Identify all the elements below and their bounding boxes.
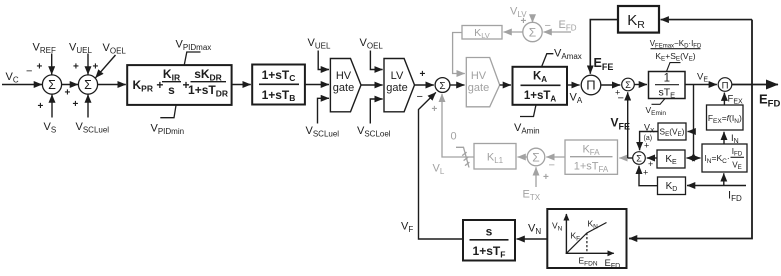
wire integrator to multiplier P2, node V_E xyxy=(685,84,717,86)
wire V_F feedback up into S3 xyxy=(419,92,464,239)
limiter slash (0 / V_L) xyxy=(456,147,469,167)
wire V_E into I_N block xyxy=(694,157,701,159)
svg-text:+: + xyxy=(37,62,43,73)
gate LV gate xyxy=(384,59,415,112)
block s/(1+sT_F) xyxy=(463,220,515,261)
wire K_R output down into P1 xyxy=(590,20,618,74)
wire grey summer to K_LV xyxy=(504,31,523,33)
wire K_D output to summer S7 xyxy=(639,166,658,186)
wire P1 to summer S6 xyxy=(601,84,621,86)
wire V_SCLuel into HV gate xyxy=(318,98,330,123)
svg-text:+: + xyxy=(65,88,71,99)
wire I_N into F_EX block xyxy=(723,132,725,144)
svg-text:Σ: Σ xyxy=(439,81,445,92)
block saturation characteristic V_N(E_FD) xyxy=(547,209,626,268)
wire K_L1 to limiter and up to summer S3 xyxy=(442,94,474,157)
gate HV gate xyxy=(330,59,361,112)
block PID K_PR+K_IR/s+sK_DR/(1+sT_DR) xyxy=(127,65,231,105)
sat block dashed knee xyxy=(586,233,588,253)
wire V_OEL slant into S2 xyxy=(96,55,116,78)
wire V_C into summer S1 xyxy=(2,84,42,86)
node V_Amin limit xyxy=(520,105,536,117)
wire E_FD feedback vertical xyxy=(629,20,752,239)
block 1/sT_E xyxy=(649,72,686,99)
block F_EX=f(I_N) xyxy=(707,105,744,130)
svg-text:−: − xyxy=(26,66,32,78)
svg-text:gate: gate xyxy=(333,82,354,94)
wire V_OEL into LV gate xyxy=(370,51,382,70)
svg-text:−: − xyxy=(618,93,624,105)
wire E_FD output xyxy=(732,84,778,86)
wire F_EX into P2 xyxy=(723,93,725,105)
svg-text:Σ: Σ xyxy=(84,78,92,92)
wire V_E into S_E block xyxy=(688,131,694,133)
svg-text:+: + xyxy=(420,69,426,80)
wire grey summer S5 to K_L1 xyxy=(518,156,528,158)
wire V_REF into S1 xyxy=(51,54,53,75)
wire V_UEL into HV gate xyxy=(318,51,329,70)
wire S_E output (node V_X) to summer S7 xyxy=(640,132,658,151)
GREY SECTION xyxy=(432,6,629,203)
sat block y-axis xyxy=(565,214,567,254)
wire S1 to S2 xyxy=(62,84,78,86)
block K_L1 xyxy=(474,144,516,170)
multiplier P2 xyxy=(718,78,732,92)
svg-text:s: s xyxy=(168,83,175,97)
svg-text:−: − xyxy=(417,91,423,103)
node V_Emin limit xyxy=(652,99,666,105)
wire lead-lag to HV gate xyxy=(305,84,329,86)
svg-text:+: + xyxy=(38,101,44,112)
gate grey HV gate xyxy=(466,58,499,107)
node V_PIDmin limit xyxy=(160,105,176,117)
node V_FE / wire V_FE up into S6 xyxy=(627,92,629,158)
svg-text:Σ: Σ xyxy=(529,26,536,40)
svg-text:Σ: Σ xyxy=(636,154,642,164)
block K_D xyxy=(658,177,686,195)
svg-text:SE(VE): SE(VE) xyxy=(660,127,685,139)
wire LV gate to summer S3 xyxy=(415,84,434,86)
summing junction S7 xyxy=(633,152,646,165)
block I_N=K_C*I_FD/V_E xyxy=(702,144,747,172)
svg-text:HV: HV xyxy=(336,70,352,82)
wire feedback into K_R xyxy=(661,19,752,21)
svg-text:1: 1 xyxy=(664,73,670,85)
block S_E(V_E) xyxy=(658,123,686,140)
sat block x-axis xyxy=(566,252,614,254)
svg-text:Π: Π xyxy=(722,80,729,91)
svg-text:gate: gate xyxy=(468,82,489,94)
wire E_TX into grey summer S5 xyxy=(535,167,537,187)
sat block curve xyxy=(566,223,606,254)
svg-text:+: + xyxy=(93,62,99,73)
wire S3 to grey HV gate xyxy=(450,84,465,86)
block (1+sT_C)/(1+sT_B) xyxy=(252,65,305,105)
wire V_LV into grey summer xyxy=(532,16,534,23)
svg-text:+: + xyxy=(543,172,549,183)
svg-text:Σ: Σ xyxy=(625,80,631,90)
wire V_FE junction into grey K_FA block xyxy=(619,157,628,159)
block K_E xyxy=(657,150,685,168)
wire S2 to PID block xyxy=(98,84,126,86)
svg-text:s: s xyxy=(486,225,493,239)
block K_LV xyxy=(462,26,502,40)
summing junction S2 xyxy=(78,75,97,94)
svg-text:Π: Π xyxy=(586,78,595,93)
svg-text:+: + xyxy=(644,141,649,151)
summing junction grey S5 xyxy=(527,148,545,166)
svg-text:+: + xyxy=(432,104,438,115)
svg-text:Σ: Σ xyxy=(532,151,539,165)
wire K_FA to grey summer S5 xyxy=(546,156,565,158)
svg-text:0: 0 xyxy=(451,131,457,143)
wire V_E drop line xyxy=(693,85,695,159)
wire V_UEL into S2 xyxy=(87,54,89,75)
svg-text:+: + xyxy=(648,159,653,169)
svg-text:+: + xyxy=(73,99,79,110)
wire K_E output to summer S7 xyxy=(647,157,657,159)
block K_R xyxy=(618,6,659,33)
svg-text:Σ: Σ xyxy=(48,78,56,92)
wire PID to lead-lag block xyxy=(232,84,251,86)
block K_A/(1+sT_A) xyxy=(513,67,568,105)
wire grey HV gate to K_A block xyxy=(500,84,511,86)
summing junction S3 xyxy=(435,78,450,93)
multiplier P1 xyxy=(581,75,601,95)
summing junction S6 xyxy=(622,78,635,91)
wire V_E into K_E block xyxy=(687,157,694,159)
svg-text:gate: gate xyxy=(386,82,407,94)
svg-text:−: − xyxy=(545,20,551,32)
wire S6 to integrator block xyxy=(634,84,647,86)
wire I_FD input line xyxy=(687,185,746,187)
wire V_S into S1 xyxy=(51,95,53,118)
wire S7 output to V_FE junction xyxy=(628,157,633,159)
wire V_SCLuel into S2 xyxy=(87,95,89,118)
summing junction S1 xyxy=(42,75,61,94)
wire V_SCLoel into LV gate xyxy=(370,99,382,124)
svg-text:LV: LV xyxy=(391,70,404,82)
svg-text:−: − xyxy=(549,160,555,172)
wire I_FD up into I_N block xyxy=(723,173,725,185)
summing junction grey S4 xyxy=(523,22,542,41)
wire HV gate to LV gate xyxy=(361,84,383,86)
block K_FA/(1+sT_FA) xyxy=(565,140,618,174)
svg-text:+: + xyxy=(73,62,79,73)
wire K_LV to grey HV gate xyxy=(453,33,465,74)
wire sat block to washout block, node V_N xyxy=(517,238,548,240)
wire K_A to multiplier P1, node V_A xyxy=(567,84,580,86)
wire E_FD into grey summer xyxy=(544,31,572,33)
svg-text:+: + xyxy=(643,168,648,178)
svg-text:HV: HV xyxy=(471,70,487,82)
